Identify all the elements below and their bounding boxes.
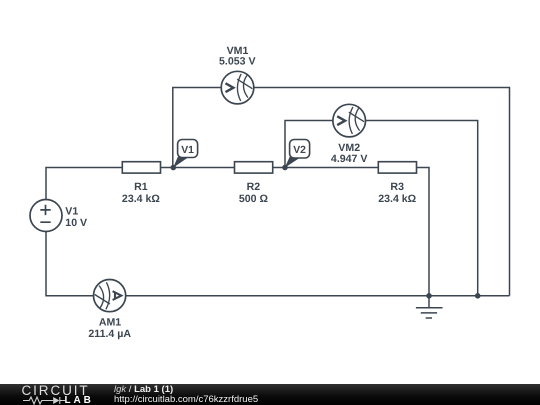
credit line — [114, 384, 173, 395]
svg-text:211.4 µA: 211.4 µA — [88, 328, 131, 340]
svg-text:5.053 V: 5.053 V — [219, 56, 256, 68]
junction node — [475, 293, 481, 299]
wire — [46, 231, 94, 295]
wire — [272, 167, 378, 169]
credit url — [114, 394, 258, 405]
svg-text:4.947 V: 4.947 V — [331, 153, 368, 165]
svg-text:V1: V1 — [65, 205, 78, 217]
label R3 value — [378, 181, 416, 205]
ammeter AM1 — [94, 280, 126, 312]
svg-text:R1: R1 — [134, 181, 148, 193]
svg-text:R2: R2 — [247, 181, 261, 193]
label V1 10 V — [65, 205, 87, 229]
label AM1 211.4 uA — [88, 316, 131, 340]
voltmeter VM1 — [221, 71, 254, 104]
node V2 flag — [285, 140, 310, 168]
svg-text:10 V: 10 V — [65, 217, 87, 229]
wire — [46, 168, 123, 200]
resistor R1 — [122, 162, 160, 173]
junction node V1 — [171, 165, 177, 171]
voltage source V1 — [30, 200, 62, 232]
wire — [173, 88, 222, 168]
ground — [416, 296, 443, 318]
svg-text:23.4 kΩ: 23.4 kΩ — [378, 193, 416, 205]
junction node V2 — [282, 165, 288, 171]
wire — [125, 295, 509, 297]
svg-text:V1: V1 — [181, 145, 194, 156]
svg-text:23.4 kΩ: 23.4 kΩ — [122, 193, 160, 205]
voltmeter VM2 — [333, 104, 366, 137]
CircuitLab logo CIRCUIT — [22, 383, 90, 398]
wire — [160, 167, 235, 169]
wire — [285, 121, 333, 168]
wire — [254, 88, 510, 296]
svg-text:V2: V2 — [293, 145, 306, 156]
resistor R2 — [235, 162, 273, 173]
svg-text:500 Ω: 500 Ω — [239, 193, 269, 205]
CircuitLab logo zigzag diode — [23, 396, 66, 405]
junction ground node — [426, 293, 432, 299]
label R2 value — [239, 181, 269, 205]
label R1 value — [122, 181, 160, 205]
svg-text:R3: R3 — [390, 181, 404, 193]
label VM2 4.947 V — [331, 142, 368, 165]
label VM1 5.053 V — [219, 45, 256, 68]
resistor R3 — [378, 162, 416, 173]
footer bar — [0, 384, 540, 405]
wire — [416, 168, 429, 296]
wire — [366, 121, 478, 296]
svg-text:AM1: AM1 — [99, 316, 121, 328]
node V1 flag — [173, 140, 198, 168]
CircuitLab logo LAB — [65, 395, 94, 405]
